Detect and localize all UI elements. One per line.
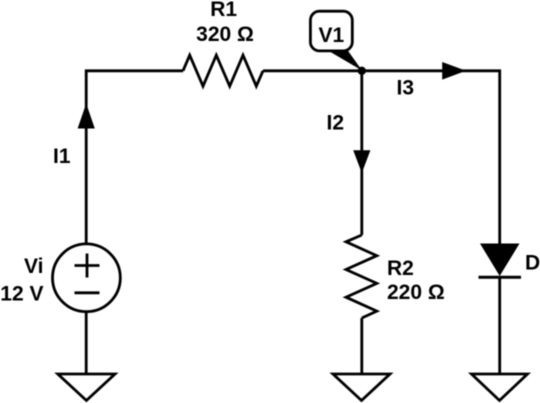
node V1 dot — [358, 67, 366, 75]
svg-text:I3: I3 — [397, 77, 415, 100]
arrow I2 — [353, 150, 370, 173]
diode D triangle — [480, 244, 520, 277]
svg-text:220 Ω: 220 Ω — [387, 281, 445, 304]
arrow I3 — [442, 62, 466, 80]
plus sign — [75, 254, 100, 278]
ground left — [58, 374, 115, 401]
callout box V1 — [310, 11, 352, 51]
svg-text:Vi: Vi — [24, 255, 43, 278]
ground right — [472, 374, 528, 401]
resistor R1 — [183, 55, 263, 86]
svg-text:D: D — [525, 252, 540, 275]
minus sign — [75, 291, 100, 294]
wire top-right horizontal + right vertical — [263, 71, 500, 244]
wire top-left horizontal + left vertical — [86, 71, 183, 244]
source Vi circle — [53, 244, 121, 312]
diode cathode bar — [479, 276, 522, 279]
svg-text:I2: I2 — [327, 112, 345, 135]
wire right below diode — [498, 277, 501, 374]
svg-text:V1: V1 — [319, 24, 345, 47]
svg-text:R2: R2 — [387, 257, 414, 280]
svg-text:I1: I1 — [53, 145, 71, 168]
ground middle — [333, 374, 390, 401]
svg-text:R1: R1 — [210, 0, 237, 21]
arrow I1 — [78, 104, 95, 129]
wire middle below R2 — [360, 318, 363, 374]
resistor R2 — [346, 235, 377, 318]
callout pointer — [325, 45, 363, 71]
wire middle vertical — [360, 71, 363, 235]
svg-text:12 V: 12 V — [0, 283, 43, 306]
svg-text:320 Ω: 320 Ω — [196, 23, 254, 46]
wire left below source — [85, 312, 88, 374]
